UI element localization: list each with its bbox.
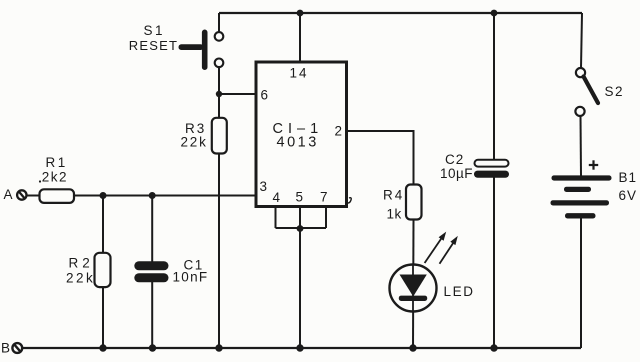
junction dot S1/R3/pin6 bbox=[216, 91, 222, 97]
junction dot ground rail pin5 bbox=[296, 344, 303, 351]
svg-text:7: 7 bbox=[320, 190, 328, 205]
svg-text:3: 3 bbox=[260, 179, 268, 194]
junction dot ground rail C1 bbox=[149, 344, 156, 351]
wire R2 bottom lead bbox=[102, 287, 104, 348]
junction dot pins 4-5-7 bbox=[297, 225, 304, 232]
wire top rail bbox=[219, 12, 582, 14]
svg-text:22k: 22k bbox=[181, 135, 208, 150]
node B terminal bbox=[12, 343, 22, 353]
junction dot ground rail R2 bbox=[99, 344, 106, 351]
resistor R3 bbox=[212, 118, 227, 154]
svg-text:C2: C2 bbox=[445, 152, 464, 167]
label battery plus bbox=[589, 160, 598, 169]
svg-text:S2: S2 bbox=[605, 84, 625, 99]
svg-text:4013: 4013 bbox=[277, 135, 319, 151]
wire C2 bottom lead bbox=[493, 178, 495, 349]
wire R3 bottom to ground rail bbox=[218, 154, 220, 349]
svg-text:B: B bbox=[1, 341, 10, 356]
junction dot A-wire C1 bbox=[149, 192, 156, 199]
wire S1 top lead bbox=[218, 13, 220, 33]
junction dot ground rail R3 bbox=[215, 344, 222, 351]
svg-text:2k2: 2k2 bbox=[42, 169, 68, 184]
svg-text:R4: R4 bbox=[383, 188, 404, 203]
wire S2 to battery bbox=[580, 116, 583, 176]
svg-text:6: 6 bbox=[261, 88, 269, 103]
svg-text:B1: B1 bbox=[619, 170, 638, 185]
wire S2 drop from top rail bbox=[581, 13, 582, 68]
svg-text:22k: 22k bbox=[66, 271, 95, 286]
resistor R2 bbox=[95, 253, 111, 287]
wire C2 top lead bbox=[493, 13, 495, 160]
svg-text:RESET: RESET bbox=[129, 38, 178, 53]
wire C1 bottom lead bbox=[151, 282, 153, 348]
svg-text:4: 4 bbox=[273, 190, 281, 205]
wire R1 to pin 3 bbox=[74, 195, 256, 197]
junction dot top rail C2 bbox=[491, 10, 498, 17]
wire pin 2 to R4 bbox=[347, 131, 414, 185]
wire C1 top lead bbox=[151, 196, 153, 262]
wire pin 5 down to ground rail bbox=[299, 207, 301, 348]
op-amp U1: IC CI-1 4013 box bbox=[256, 62, 347, 207]
svg-text:1k: 1k bbox=[387, 207, 402, 222]
wire pin 14 bbox=[299, 13, 301, 62]
wire R3 top lead bbox=[218, 94, 220, 118]
wire bottom ground rail bbox=[22, 347, 581, 349]
wire R4 to LED to ground rail bbox=[412, 220, 415, 349]
switch S1 pushbutton bbox=[179, 30, 224, 71]
svg-text:5: 5 bbox=[296, 190, 304, 205]
wire S1 bottom lead bbox=[218, 66, 220, 94]
resistor R1 bbox=[40, 189, 75, 203]
svg-text:14: 14 bbox=[290, 66, 309, 81]
LED D1 bbox=[390, 265, 437, 312]
svg-text:10nF: 10nF bbox=[173, 270, 209, 285]
wire pin 7 bbox=[325, 207, 327, 228]
switch S2 bbox=[575, 68, 598, 116]
wire node A to R1 bbox=[27, 195, 40, 197]
junction dot ground rail C2 bbox=[490, 344, 497, 351]
wire joining pins 4-5-7 bbox=[276, 227, 327, 229]
svg-text:R2: R2 bbox=[69, 256, 94, 271]
svg-text:10µF: 10µF bbox=[440, 166, 473, 181]
resistor R4 bbox=[406, 185, 422, 220]
junction dot A-wire R2 bbox=[100, 192, 107, 199]
svg-text:R1: R1 bbox=[46, 155, 68, 170]
svg-text:S1: S1 bbox=[144, 23, 166, 38]
node A terminal bbox=[17, 190, 26, 199]
junction dot ground rail LED bbox=[409, 344, 416, 351]
capacitor C2 electrolytic bbox=[474, 160, 509, 178]
wire pin 6 bbox=[219, 93, 256, 95]
svg-text:LED: LED bbox=[444, 284, 475, 299]
wire battery to ground rail bbox=[580, 219, 582, 349]
capacitor C1 bbox=[134, 261, 168, 282]
LED light arrow 2 bbox=[440, 236, 458, 264]
battery B1 bbox=[551, 175, 612, 218]
wire R2 top lead bbox=[102, 196, 104, 254]
svg-text:2: 2 bbox=[335, 124, 343, 139]
junction dot top rail pin14 bbox=[297, 10, 304, 17]
LED light arrow 1 bbox=[425, 232, 447, 263]
squiggle artifact at IC corner bbox=[348, 198, 351, 203]
svg-text:6V: 6V bbox=[619, 188, 638, 203]
svg-text:A: A bbox=[4, 187, 13, 202]
wire pin 4 bbox=[275, 207, 277, 228]
